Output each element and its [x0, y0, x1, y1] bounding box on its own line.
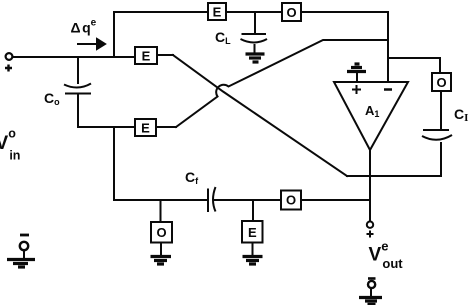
wire branch to shunt switch E4	[252, 200, 254, 221]
ground below O3	[151, 257, 172, 265]
svg-text:O: O	[156, 225, 166, 240]
wire op-amp output	[369, 150, 371, 221]
wire top rail	[114, 11, 388, 13]
wire E1 to diagonal start	[157, 54, 173, 56]
capacitor C_I	[422, 130, 452, 140]
wire top rail down to op-amp minus input	[387, 12, 389, 82]
ground at output return	[359, 298, 382, 305]
svg-text:O: O	[286, 5, 296, 20]
wire O2 to C_I	[440, 91, 442, 130]
wire minus-input node to O2	[388, 58, 440, 73]
ground below C_L	[246, 54, 265, 62]
capacitor C_o	[64, 57, 91, 127]
switch E2	[135, 119, 156, 136]
ground at op-amp plus input (flipped)	[347, 64, 366, 82]
terminal input return minus	[20, 234, 29, 237]
wire branch to shunt switch O3	[160, 200, 162, 222]
capacitor C_L	[241, 12, 268, 54]
switch O4 series bottom rail	[281, 191, 301, 210]
svg-text:O: O	[286, 193, 296, 208]
terminal output return minus	[368, 277, 376, 280]
wire diagonal E2 to minus input with crossover hop	[176, 40, 388, 127]
switch E1	[135, 47, 157, 64]
wire diagonal E1 to output node	[173, 55, 347, 176]
svg-text:O: O	[436, 75, 446, 90]
wire O3 to ground	[160, 243, 162, 257]
ground at input return	[7, 260, 35, 268]
ground below E4	[243, 257, 263, 265]
svg-text:E: E	[141, 121, 150, 136]
switch O2 to C_I	[432, 73, 451, 91]
wire E2 stub	[156, 126, 176, 128]
switch E3 top rail	[208, 3, 226, 20]
wire bottom rail left of C_f	[114, 199, 207, 201]
op-amp A1	[334, 82, 408, 150]
charge flow arrow	[77, 39, 105, 49]
svg-text:E: E	[213, 5, 222, 20]
wire input top (Vin to switch E1)	[13, 56, 135, 58]
capacitor C_f	[208, 187, 216, 212]
wire C_I return to output node	[347, 175, 441, 177]
node Vout output terminal	[367, 222, 373, 228]
switch O3 shunt	[151, 222, 172, 243]
svg-text:E: E	[248, 225, 257, 240]
label + input polarity	[5, 65, 12, 72]
wire E4 to ground	[252, 243, 254, 257]
switch O1 top rail	[282, 3, 301, 21]
wire bottom rail right of C_f	[214, 199, 370, 201]
label + output polarity	[367, 231, 374, 238]
wire vertical input-to-top-rail	[113, 12, 115, 57]
node Vin input terminal	[6, 53, 13, 60]
wire C_I to return line	[440, 143, 442, 176]
switch E4 shunt	[242, 221, 263, 243]
svg-text:E: E	[142, 49, 151, 64]
wire vertical lower wire to bottom rail	[113, 127, 115, 200]
wire lower-left C_o bottom to E2	[78, 126, 135, 128]
